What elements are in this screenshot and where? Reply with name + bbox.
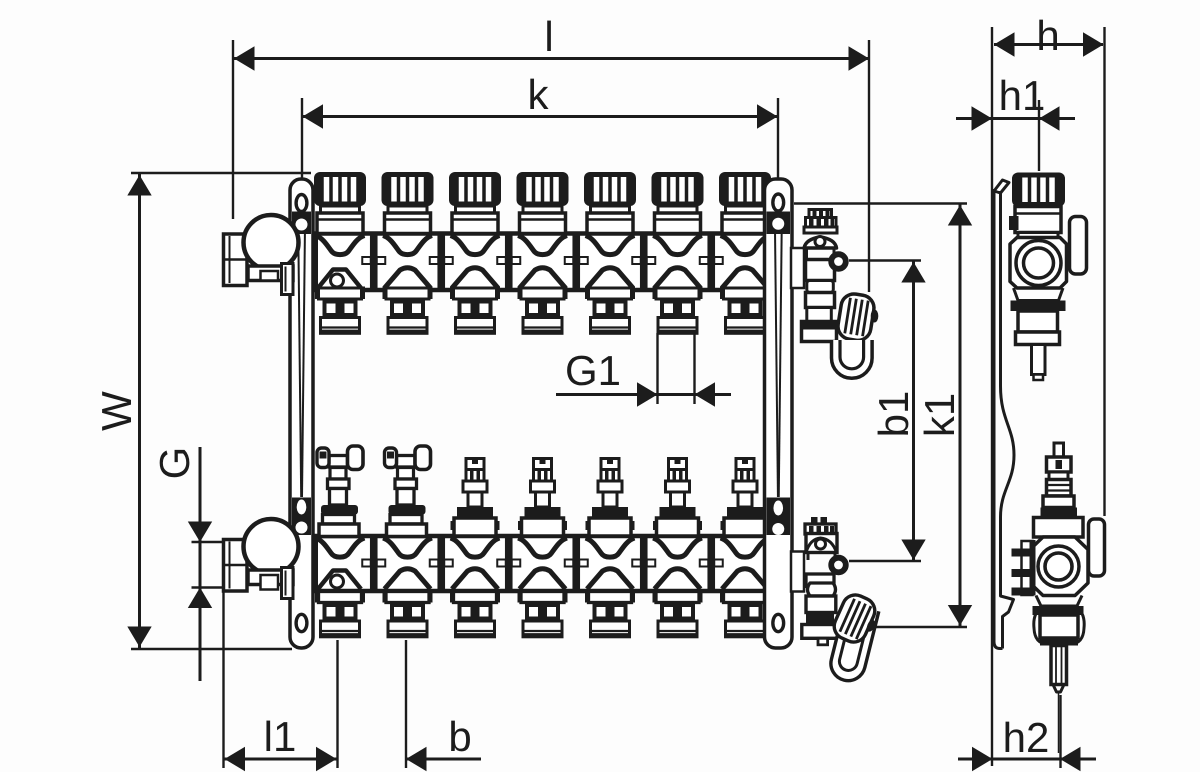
lower drain hose loop (827, 603, 879, 684)
bar peak over nozzle 7 (722, 268, 768, 288)
manifold bar outline (311, 535, 792, 592)
bar chevron under valve 3 (451, 236, 500, 255)
bottom outlet nozzle 3 (450, 590, 500, 637)
mounting rail right (765, 179, 793, 648)
top valve cap 1 (314, 172, 366, 234)
bar peak over nozzle 3 (452, 268, 498, 288)
svg-text:k: k (528, 71, 550, 118)
dimension h (overall depth) (992, 12, 1105, 766)
top outlet nozzle 7 (720, 287, 770, 334)
bottom outlet nozzle 4 (518, 590, 568, 637)
bottom valve stem 3 (451, 459, 500, 537)
bar chevron under valve 1 (316, 538, 365, 557)
side view top valve body (1010, 217, 1087, 345)
bar peak over nozzle 6 (655, 268, 701, 288)
svg-text:h1: h1 (999, 72, 1046, 119)
bar chevron under valve 5 (586, 236, 635, 255)
top outlet nozzle 6 (653, 287, 703, 334)
top valve cap 5 (584, 172, 636, 234)
svg-text:h2: h2 (1003, 714, 1050, 761)
dimension l1 (end to first outlet) (224, 590, 338, 771)
bar chevron under valve 6 (653, 538, 702, 557)
union nut end fitting (224, 215, 299, 295)
bar segment joint (430, 538, 453, 589)
top outlet nozzle 2 (383, 287, 433, 334)
bracket mounting fins (1012, 540, 1036, 596)
bottom valve with lever handle 2 (385, 446, 431, 537)
bar left-end port with screw (318, 571, 361, 590)
bar chevron under valve 3 (451, 538, 500, 557)
bar peak over nozzle 5 (587, 569, 633, 589)
svg-text:l: l (544, 13, 553, 60)
lower drain handwheel (830, 591, 884, 649)
dimension G (union thread) (151, 447, 228, 681)
top outlet nozzle 5 (585, 287, 635, 334)
bar segment joint (700, 538, 723, 589)
dimension k (mounting hole spacing) (302, 71, 778, 204)
top valve cap 3 (449, 172, 501, 234)
top valve cap 4 (517, 172, 569, 234)
wall bracket (side view) (994, 180, 1014, 649)
bar segment joint (565, 538, 588, 589)
dimension G1 (outlet thread) (556, 333, 731, 407)
mounting rail left (290, 179, 313, 648)
side view bottom valve stem (1041, 443, 1078, 518)
top outlet nozzle 1 (315, 287, 365, 334)
side view bottom drain stem (1051, 646, 1067, 754)
bar chevron under valve 4 (518, 538, 567, 557)
svg-text:b1: b1 (870, 391, 917, 438)
bar chevron under valve 5 (586, 538, 635, 557)
bar peak over nozzle 7 (722, 569, 768, 589)
manifold bar outline (311, 233, 792, 292)
dimension W (overall height) (93, 173, 311, 649)
bar peak over nozzle 2 (385, 268, 431, 288)
drain handwheel (836, 292, 876, 342)
bar segment joint (700, 236, 723, 289)
bar chevron under valve 7 (721, 236, 770, 255)
bottom manifold bar assembly (311, 535, 792, 592)
svg-text:l1: l1 (264, 713, 297, 760)
bar segment joint (362, 236, 385, 289)
bar segment joint (632, 538, 655, 589)
svg-text:W: W (93, 391, 140, 431)
bar peak over nozzle 4 (520, 268, 566, 288)
dimension b (outlet pitch) (406, 640, 481, 771)
bar chevron under valve 4 (518, 236, 567, 255)
dimension k1 (valve spacing) (794, 204, 972, 628)
bottom outlet nozzle 1 (315, 590, 365, 637)
top valve cap 2 (382, 172, 434, 234)
bottom outlet nozzle 6 (653, 590, 703, 637)
bar segment joint (565, 236, 588, 289)
drain hose loop (832, 340, 873, 378)
bar segment joint (632, 236, 655, 289)
svg-text:G1: G1 (565, 347, 621, 394)
bar chevron under valve 2 (383, 236, 432, 255)
svg-text:k1: k1 (916, 393, 963, 437)
bar peak over nozzle 4 (520, 569, 566, 589)
bar peak over nozzle 5 (587, 268, 633, 288)
union nut end fitting (224, 519, 299, 599)
bottom valve with lever handle 1 (317, 446, 363, 537)
top valve cap 7 (719, 172, 771, 234)
dimension h2 (bracket to drain axis) (958, 695, 1096, 771)
bar chevron under valve 1 (316, 236, 365, 255)
svg-text:G: G (151, 447, 198, 480)
bar chevron under valve 6 (653, 236, 702, 255)
side view bottom drain connection (1033, 596, 1085, 646)
dimension b1 (drain port spacing) (849, 261, 926, 562)
bottom valve stem 7 (721, 459, 770, 537)
bar peak over nozzle 2 (385, 569, 431, 589)
bottom valve stem 5 (586, 459, 635, 537)
upper end valve with drain cock (791, 210, 846, 342)
top valve cap 6 (652, 172, 704, 234)
bottom outlet nozzle 7 (720, 590, 770, 637)
top manifold bar assembly (311, 233, 792, 292)
bottom outlet nozzle 5 (585, 590, 635, 637)
top outlet nozzle 4 (518, 287, 568, 334)
svg-text:h: h (1036, 12, 1059, 59)
bar chevron under valve 2 (383, 538, 432, 557)
bar segment joint (497, 538, 520, 589)
bottom outlet nozzle 2 (383, 590, 433, 637)
bar segment joint (430, 236, 453, 289)
bar segment joint (362, 538, 385, 589)
bar chevron under valve 7 (721, 538, 770, 557)
side view top valve cap (1009, 173, 1065, 239)
dimension l (overall length) (233, 13, 869, 292)
bar left-end port with screw (318, 270, 361, 289)
side view bottom valve body (1030, 518, 1105, 596)
bar peak over nozzle 6 (655, 569, 701, 589)
lower end valve with drain cock (791, 517, 846, 645)
dimension h1 (bracket to valve axis) (956, 72, 1075, 171)
bar segment joint (497, 236, 520, 289)
top outlet nozzle 3 (450, 287, 500, 334)
bottom valve stem 6 (653, 459, 702, 537)
side view top drain stem (1032, 345, 1046, 381)
svg-text:b: b (448, 713, 471, 760)
bar peak over nozzle 3 (452, 569, 498, 589)
bottom valve stem 4 (518, 459, 567, 537)
